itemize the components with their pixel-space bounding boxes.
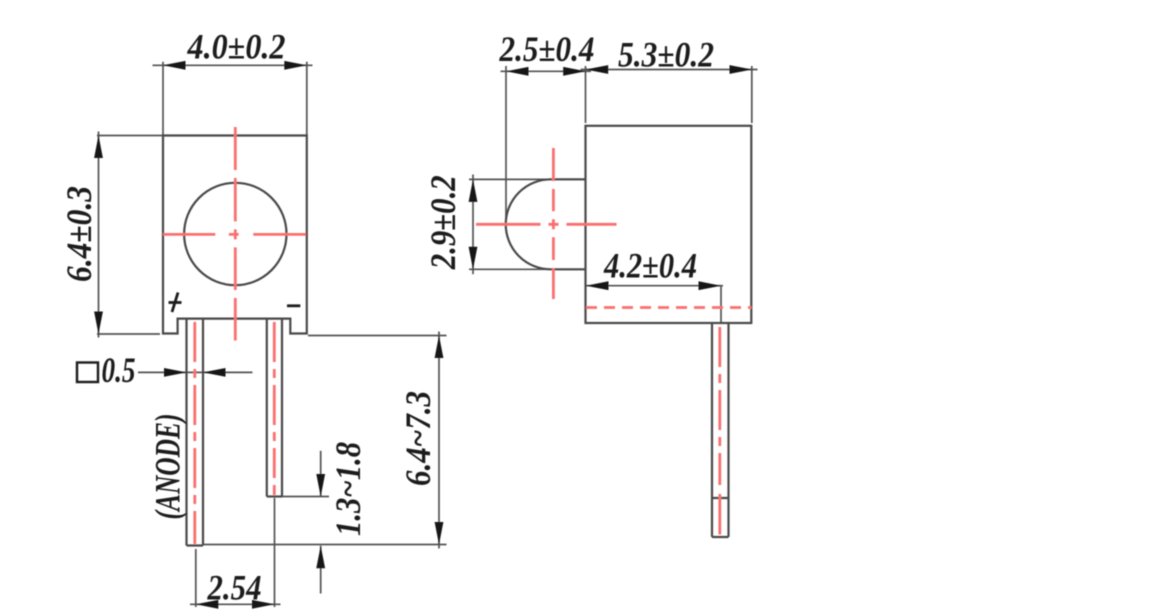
svg-text:1.3~1.8: 1.3~1.8: [328, 442, 368, 536]
svg-text:(ANODE): (ANODE): [148, 414, 188, 520]
svg-text:2.9±0.2: 2.9±0.2: [423, 175, 463, 270]
svg-text:4.0±0.2: 4.0±0.2: [187, 27, 286, 67]
svg-text:2.54: 2.54: [207, 568, 262, 608]
svg-text:2.5±0.4: 2.5±0.4: [499, 29, 595, 69]
svg-text:4.2±0.4: 4.2±0.4: [603, 246, 697, 286]
svg-text:5.3±0.2: 5.3±0.2: [618, 35, 714, 75]
svg-text:6.4±0.3: 6.4±0.3: [59, 186, 99, 282]
svg-text:6.4~7.3: 6.4~7.3: [398, 391, 438, 486]
svg-text:0.5: 0.5: [102, 350, 136, 390]
